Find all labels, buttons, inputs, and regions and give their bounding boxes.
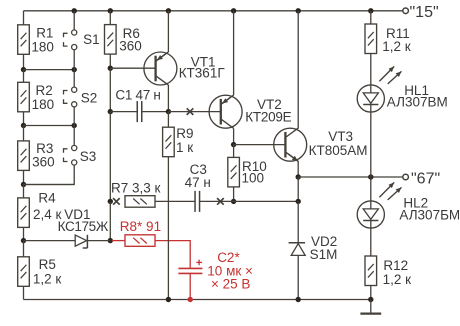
wire R8 to C2 (red) <box>155 241 190 268</box>
node C1 left <box>108 109 113 114</box>
node VT2 collector / R10 / VT3 base <box>231 142 236 147</box>
wire 67 row <box>298 176 403 178</box>
node R2/R3/S2 <box>21 123 77 128</box>
node VD1 cathode / R8 <box>108 238 113 243</box>
capacitor C2 (red) <box>178 250 252 292</box>
svg-text:100: 100 <box>242 171 265 186</box>
node R1/R2/S1 <box>21 67 77 72</box>
node bottom/ground <box>368 297 373 302</box>
wire base net down 2 <box>109 112 111 202</box>
wire node to R10 <box>233 145 235 158</box>
switch S1 <box>64 30 100 50</box>
resistor R12 <box>365 256 411 287</box>
svg-text:× 25 В: × 25 В <box>211 277 250 292</box>
wire S1 to node <box>73 50 75 70</box>
wire VD2 to bottom rail <box>296 255 301 302</box>
transistor VT2 КТ209Е <box>209 95 292 128</box>
svg-text:R1: R1 <box>36 26 53 41</box>
wire R10 to row <box>233 187 235 202</box>
capacitor C1 <box>115 87 160 122</box>
resistor R7 <box>111 180 161 207</box>
node R10 bottom <box>231 199 236 204</box>
wire VT3 collector to rail <box>296 8 301 128</box>
node VT1 collector / C1 / R9 <box>166 109 171 114</box>
svg-text:C1 47 н: C1 47 н <box>115 87 160 102</box>
svg-text:S1: S1 <box>83 32 100 47</box>
wire R2 to node <box>23 112 25 126</box>
svg-text:R5: R5 <box>39 257 56 272</box>
wire R3 to node <box>23 170 25 184</box>
wire to C1 <box>110 111 137 113</box>
resistor R1 <box>18 25 54 55</box>
switch S2 <box>64 87 98 107</box>
svg-text:1,2 к: 1,2 к <box>383 272 412 287</box>
svg-text:R4: R4 <box>38 190 56 205</box>
wire node down to row <box>297 177 299 201</box>
wire row to VT3 emitter node <box>234 200 299 202</box>
node VD2 top <box>296 199 301 204</box>
ground <box>360 300 381 314</box>
svg-text:S2: S2 <box>81 90 98 105</box>
wire left column top <box>23 11 25 25</box>
wire R5 to bottom rail <box>23 286 25 299</box>
wire R4 node to VD1 <box>24 240 76 242</box>
node HL1/HL2 <box>368 174 373 179</box>
wire R4 to VD1 node <box>23 227 25 240</box>
svg-text:47 н: 47 н <box>185 175 211 190</box>
wire node to S3 <box>73 126 75 146</box>
wire VT2 emitter to rail <box>231 8 236 95</box>
LED HL2 АЛ307БМ <box>357 182 460 228</box>
terminal "67" <box>403 171 440 188</box>
resistor R8 (red) <box>112 219 161 246</box>
wire HL2 to R12 <box>370 228 372 256</box>
wire base net down <box>109 68 111 111</box>
svg-text:360: 360 <box>119 38 142 53</box>
transistor VT3 КТ805АМ <box>274 128 368 161</box>
svg-text:1,2 к: 1,2 к <box>33 272 62 287</box>
wire VT1 collector down <box>167 85 169 112</box>
svg-text:S3: S3 <box>80 149 97 164</box>
diode VD1 КС175Ж <box>58 207 109 248</box>
resistor R6 <box>105 25 142 54</box>
switch S3 <box>64 145 97 165</box>
node R6/VT1 base <box>108 66 113 71</box>
diode VD2 S1M <box>289 234 338 262</box>
resistor R11 <box>365 24 411 54</box>
wire R9 down to bottom rail <box>166 157 171 302</box>
resistor R9 <box>163 126 194 157</box>
node rail/R6 <box>108 8 113 25</box>
node rail/R11 <box>368 8 373 24</box>
wire bottom rail <box>24 299 371 301</box>
svg-text:КТ805АМ: КТ805АМ <box>309 143 368 158</box>
svg-text:R2: R2 <box>36 83 53 98</box>
svg-text:АЛ307ВМ: АЛ307ВМ <box>387 95 448 110</box>
svg-text:1 к: 1 к <box>176 140 193 155</box>
wire base node to VT1 <box>110 67 156 69</box>
wire 67 row to HL2 <box>370 177 372 201</box>
resistor R3 <box>18 126 55 171</box>
wire R6 to base node <box>109 54 111 68</box>
svg-text:360: 360 <box>32 155 55 170</box>
capacitor C3 <box>185 162 211 212</box>
wire node to S2 <box>73 70 75 88</box>
cross mark at R7 left <box>113 198 120 205</box>
wire VT3 emitter down <box>297 161 299 177</box>
terminal "15" <box>403 4 439 21</box>
svg-text:КТ361Г: КТ361Г <box>179 66 226 81</box>
svg-text:180: 180 <box>31 40 54 55</box>
wire VT2 collector down <box>233 128 235 144</box>
svg-text:АЛ307БМ: АЛ307БМ <box>399 207 460 222</box>
svg-text:"67": "67" <box>411 171 440 188</box>
wire VT1 emitter to rail <box>166 8 171 52</box>
svg-text:180: 180 <box>32 97 55 112</box>
wire rail to S1 <box>72 8 77 30</box>
wire VD1 to node <box>87 240 110 242</box>
wire C1 to VT1 collector node <box>142 111 168 113</box>
LED HL1 АЛ307ВМ <box>357 66 448 112</box>
wire C2 to bottom rail (red) <box>188 273 193 302</box>
cross mark at C3 right <box>217 198 224 205</box>
svg-text:R12: R12 <box>383 258 408 273</box>
wire R12 to bottom rail <box>370 286 372 300</box>
node R7 left <box>108 199 113 204</box>
svg-text:S1M: S1M <box>310 247 338 262</box>
wire C3 to R10 node <box>200 200 234 202</box>
wire S3 down to row <box>24 165 75 184</box>
svg-text:КС175Ж: КС175Ж <box>58 219 109 234</box>
resistor R4 <box>18 185 62 228</box>
cross mark near VT2 base <box>187 108 194 115</box>
resistor R5 <box>18 241 62 287</box>
wire HL1 to 67 row <box>370 112 372 177</box>
wire S2 to node <box>73 107 75 126</box>
transistor VT1 КТ361Г <box>144 52 225 85</box>
wire node to R9 <box>167 112 169 128</box>
svg-text:1,2 к: 1,2 к <box>382 39 411 54</box>
svg-text:VT3: VT3 <box>328 129 353 144</box>
svg-text:КТ209Е: КТ209Е <box>245 109 291 124</box>
node R3/R4/S3 <box>21 182 74 187</box>
svg-text:R7 3,3 к: R7 3,3 к <box>111 180 161 195</box>
node R4/R5/VD1 <box>21 238 26 243</box>
resistor R10 <box>228 157 267 187</box>
wire top +15V rail <box>24 10 403 12</box>
resistor R2 <box>18 70 54 112</box>
wire to VT3 base <box>234 144 286 146</box>
svg-text:"15": "15" <box>410 4 439 21</box>
wire R11 to HL1 <box>370 54 372 86</box>
wire R1 to node <box>23 54 25 69</box>
node VT3 emitter / 67 row <box>296 174 301 179</box>
wire base net down 3 <box>109 201 111 240</box>
wire to VT2 base <box>168 111 220 113</box>
svg-text:R8* 91: R8* 91 <box>120 219 161 234</box>
svg-text:R9: R9 <box>176 126 193 141</box>
wire node to VD2 <box>297 201 299 242</box>
wire R7 to C3 <box>155 200 195 202</box>
